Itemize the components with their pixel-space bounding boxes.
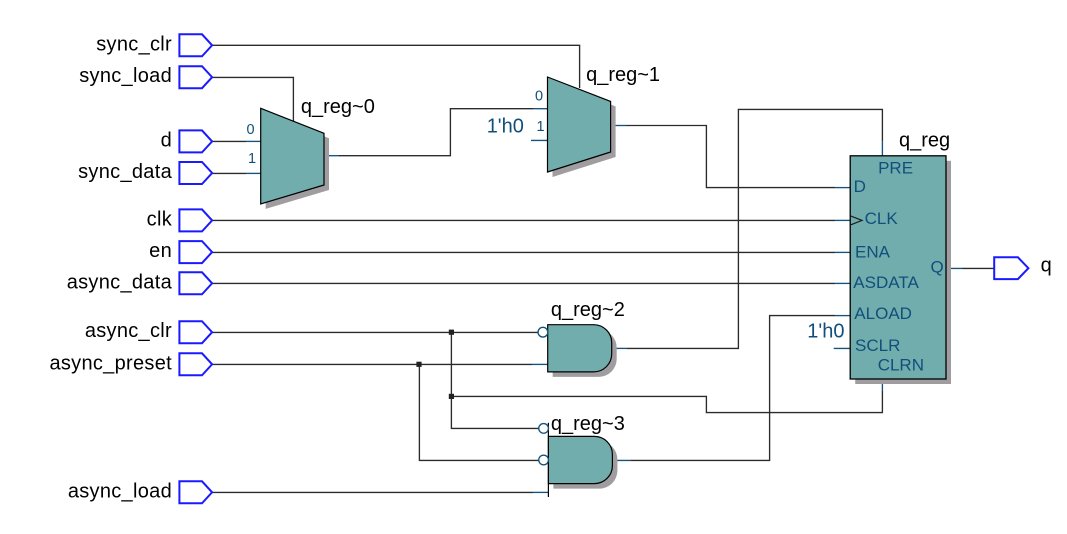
- wire async_load to gate q_reg~3 input 3: [212, 491, 533, 493]
- gate q_reg~2 (AND, inverted top input): [548, 325, 612, 372]
- wire gate q_reg~3 output to q_reg ALOAD: [612, 459, 631, 461]
- gate q_reg~3 input stem: [547, 423, 549, 497]
- register q_reg shadow: [855, 161, 951, 384]
- mux q_reg~0: [261, 108, 324, 204]
- gate q_reg~3 shadow: [553, 441, 617, 488]
- svg-text:q_reg: q_reg: [899, 130, 950, 152]
- wire sync_clr to mux q_reg~1 select: [212, 45, 579, 88]
- wire clk to q_reg CLK: [212, 219, 836, 221]
- svg-text:sync_data: sync_data: [78, 161, 172, 183]
- wire async_data to q_reg ASDATA: [212, 282, 836, 284]
- junction async_preset branch: [416, 362, 421, 367]
- svg-text:async_load: async_load: [68, 480, 172, 502]
- svg-text:q_reg~0: q_reg~0: [301, 96, 375, 118]
- input pin sync_load: [179, 66, 212, 88]
- svg-text:q_reg~1: q_reg~1: [586, 64, 660, 86]
- svg-text:sync_clr: sync_clr: [96, 33, 172, 55]
- mux q_reg~1: [548, 77, 611, 172]
- svg-text:1: 1: [537, 119, 545, 135]
- register q_reg: [850, 156, 946, 379]
- junction async_clr / gate2: [449, 330, 454, 335]
- input pin async_preset: [179, 353, 212, 375]
- input pin async_data: [179, 272, 212, 294]
- svg-text:Q: Q: [931, 258, 944, 277]
- wire constant 1'h0 stub to mux q_reg~1 input 1: [531, 139, 548, 141]
- input pin d: [179, 130, 212, 152]
- output pin q: [994, 257, 1028, 279]
- input pin clk: [179, 209, 212, 231]
- junction async_clr / CLRN branch: [449, 394, 454, 399]
- wire sync_data to mux q_reg~0 input 1: [212, 172, 247, 174]
- clock triangle: [851, 216, 862, 225]
- svg-text:CLRN: CLRN: [878, 356, 924, 375]
- svg-text:async_preset: async_preset: [49, 352, 172, 374]
- wire sync_load to mux q_reg~0 select: [212, 77, 293, 121]
- gate q_reg~2 shadow: [553, 330, 617, 377]
- gate q_reg~2 input bubble: [538, 327, 548, 337]
- svg-text:ALOAD: ALOAD: [854, 304, 912, 323]
- wire async_preset branch to gate q_reg~3 inverted input 2: [419, 364, 538, 460]
- wire en to q_reg ENA: [212, 251, 836, 253]
- svg-text:q_reg~3: q_reg~3: [551, 413, 625, 435]
- wire async_preset to gate q_reg~2 input 2: [212, 363, 532, 365]
- wire async_clr to gate q_reg~2 inverted input: [212, 331, 538, 333]
- gate q_reg~3 input bubble 2: [539, 455, 549, 465]
- svg-text:0: 0: [535, 89, 543, 105]
- svg-text:sync_load: sync_load: [79, 65, 172, 87]
- svg-text:d: d: [161, 129, 172, 151]
- wire mux q_reg~1 output to q_reg D: [611, 125, 626, 127]
- svg-text:SCLR: SCLR: [855, 336, 900, 355]
- input pin en: [179, 241, 212, 263]
- input pin async_clr: [179, 321, 212, 343]
- svg-text:1'h0: 1'h0: [487, 116, 524, 138]
- svg-text:en: en: [149, 240, 172, 262]
- svg-text:async_clr: async_clr: [85, 320, 172, 342]
- wire q_reg Q to output pin q: [946, 267, 963, 269]
- svg-text:async_data: async_data: [67, 271, 173, 293]
- svg-text:1: 1: [248, 151, 256, 167]
- wire async_clr branch down to gate q_reg~3 inverted input 1: [451, 332, 538, 428]
- wire d to mux q_reg~0 input 0: [212, 140, 247, 142]
- svg-text:q_reg~2: q_reg~2: [551, 299, 625, 321]
- svg-text:D: D: [854, 177, 866, 196]
- input pin async_load: [179, 481, 212, 503]
- svg-text:1'h0: 1'h0: [807, 321, 844, 343]
- svg-text:ASDATA: ASDATA: [853, 273, 919, 292]
- gate q_reg~3 (AND, two inverted inputs): [548, 436, 612, 483]
- wire mux q_reg~0 output to mux q_reg~1 input 0: [324, 155, 339, 157]
- svg-text:PRE: PRE: [878, 158, 913, 177]
- input pin sync_clr: [179, 34, 212, 56]
- svg-text:clk: clk: [147, 208, 173, 230]
- mux q_reg~1 shadow: [553, 82, 616, 177]
- svg-text:CLK: CLK: [865, 209, 899, 228]
- gate q_reg~3 input bubble 1: [539, 424, 549, 434]
- svg-text:q: q: [1041, 254, 1052, 276]
- input pin sync_data: [179, 162, 212, 184]
- svg-text:ENA: ENA: [855, 242, 891, 261]
- wire constant 1'h0 stub to q_reg SCLR: [834, 347, 851, 349]
- svg-text:0: 0: [247, 122, 255, 138]
- mux q_reg~0 shadow: [266, 113, 329, 209]
- wire async_clr branch to q_reg CLRN: [451, 391, 882, 413]
- wire gate q_reg~2 output to q_reg PRE: [612, 347, 627, 349]
